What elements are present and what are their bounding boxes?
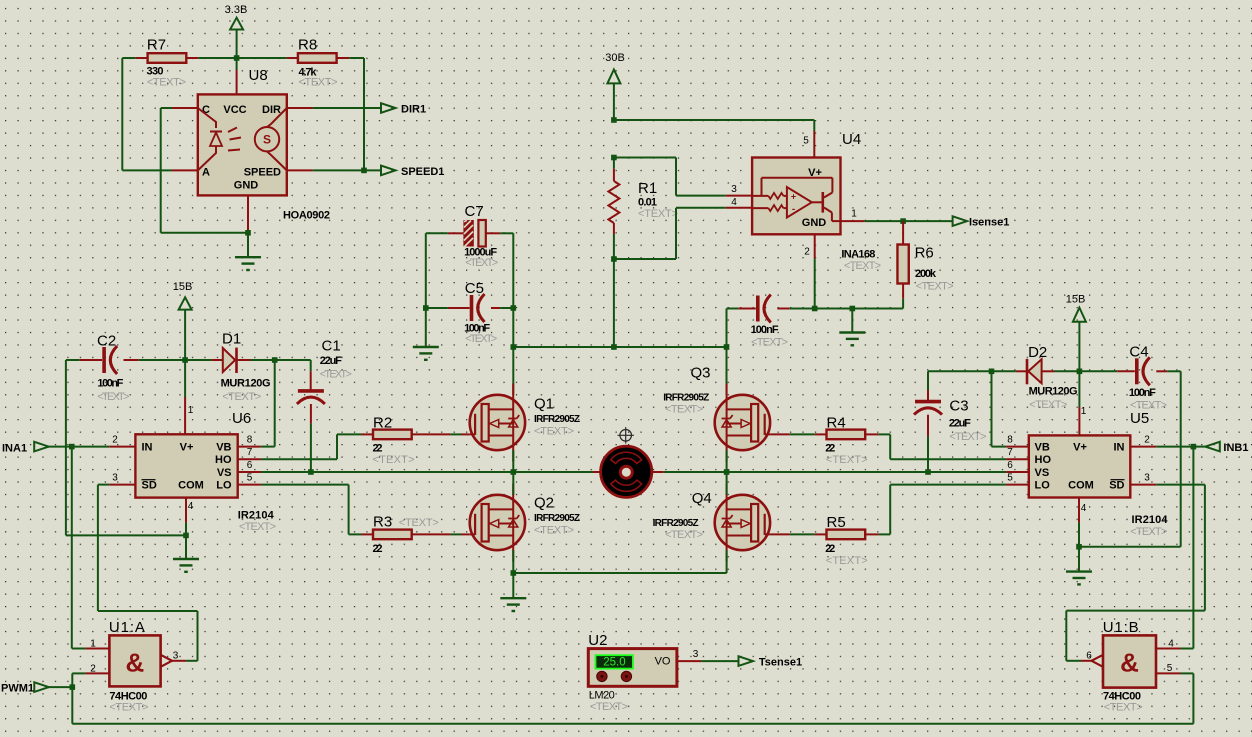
wire R7-left to opto A <box>122 58 172 170</box>
transistor Q2 <box>470 484 580 562</box>
svg-text:<TEXT>: <TEXT> <box>534 426 574 438</box>
node Isense junction <box>900 218 906 224</box>
svg-text:MUR120G: MUR120G <box>221 378 271 390</box>
wire VS right row <box>727 471 1007 473</box>
svg-text:<TEXT>: <TEXT> <box>222 391 261 403</box>
U5 pin names <box>1035 442 1125 492</box>
node VB-right junction <box>989 369 995 375</box>
svg-text:<TEXT>: <TEXT> <box>1104 702 1143 714</box>
wire SPEED1 <box>313 169 381 171</box>
wire VB-right <box>992 371 1007 446</box>
svg-text:<TEXT>: <TEXT> <box>1029 399 1067 411</box>
svg-text:COM: COM <box>178 480 204 492</box>
U1:B pin numbers <box>1086 639 1174 675</box>
ground under U4 <box>839 333 865 346</box>
U8 pin GND stub <box>247 195 249 232</box>
wire INB1 down to U1:B pin4 <box>1181 447 1194 649</box>
node U4-gnd junction <box>850 306 856 312</box>
motor origin marker <box>618 427 634 443</box>
svg-text:<TEXT>: <TEXT> <box>320 369 352 381</box>
wire 15B to C4 <box>1079 370 1117 372</box>
svg-text:COM: COM <box>1068 480 1094 492</box>
U2 pin3 wire <box>677 649 739 661</box>
terminal Tsense1 <box>739 656 803 668</box>
U8 LED rays <box>228 128 241 151</box>
power rail 15B left arrow <box>173 281 193 360</box>
svg-text:<TEXT>: <TEXT> <box>465 333 497 345</box>
terminal Isense1 <box>953 216 1010 228</box>
svg-text:1: 1 <box>1081 406 1087 417</box>
svg-text:<TEXT>: <TEXT> <box>665 529 703 541</box>
U8 speed sensor S <box>255 108 287 170</box>
svg-text:<TEXT>: <TEXT> <box>665 404 703 416</box>
wire 15B to U5 V+ <box>1078 371 1080 435</box>
op-amp U4 body <box>752 131 881 272</box>
svg-text:U8: U8 <box>249 67 268 84</box>
svg-text:<TEXT>: <TEXT> <box>590 701 628 713</box>
node R1 bottom junction <box>611 256 617 262</box>
wire PWM1 to pin2 <box>72 673 85 687</box>
node SPEED junction <box>361 168 367 174</box>
svg-text:DIR: DIR <box>262 104 281 116</box>
svg-text:<TEXT>: <TEXT> <box>147 77 186 89</box>
svg-text:6: 6 <box>247 460 253 471</box>
wire C4 return to COM <box>1079 371 1181 547</box>
power rail 3.3B arrow <box>225 4 248 58</box>
svg-text:IRFR2905Z: IRFR2905Z <box>653 518 699 529</box>
svg-text:LM20: LM20 <box>589 690 615 702</box>
wire R3 to Q2 gate <box>450 533 469 535</box>
svg-text:4: 4 <box>188 501 194 512</box>
svg-text:22: 22 <box>825 543 835 555</box>
wire PWM1 bottom bus <box>72 673 1193 723</box>
wire VCC stem <box>236 58 238 94</box>
svg-text:+: + <box>791 192 796 202</box>
svg-text:7: 7 <box>247 447 253 458</box>
ground under U5 <box>1066 572 1092 585</box>
capacitor C4 <box>1117 344 1167 412</box>
svg-text:<TEXT>: <TEXT> <box>949 431 986 443</box>
U1:B pin stubs <box>1156 649 1181 674</box>
svg-text:0.01: 0.01 <box>638 197 657 209</box>
svg-text:IRFR2905Z: IRFR2905Z <box>663 393 709 404</box>
node bottom-gnd junction <box>511 570 517 576</box>
wire opto C to gnd <box>161 108 248 233</box>
wire R4 to Q3 gate <box>770 433 815 435</box>
capacitor C1 <box>297 338 352 473</box>
U6 pin numbers <box>112 405 253 512</box>
svg-text:<TEXT>: <TEXT> <box>373 454 415 466</box>
svg-text:100nF: 100nF <box>751 324 779 336</box>
svg-text:<TEXT>: <TEXT> <box>239 521 276 533</box>
U8 pin SPEED stub <box>287 169 313 171</box>
svg-text:3.3B: 3.3B <box>225 4 248 16</box>
U8 pin A stub <box>172 169 198 171</box>
svg-text:1: 1 <box>188 405 194 416</box>
wire PWM1 <box>47 686 73 688</box>
node motor-left junction <box>511 469 517 475</box>
svg-text:<TEXT>: <TEXT> <box>97 391 129 403</box>
U1:B output wedge <box>1081 655 1103 667</box>
nand gate U1:B body <box>1103 619 1156 714</box>
wire R7 to R8 <box>198 57 286 59</box>
svg-text:7: 7 <box>1007 447 1013 458</box>
svg-text:<TEXT>: <TEXT> <box>465 257 498 269</box>
U2 display <box>596 655 633 668</box>
svg-text:C5: C5 <box>465 280 484 297</box>
terminal INA1 <box>2 442 49 455</box>
wire bottom rail <box>513 550 726 573</box>
svg-text:100nF: 100nF <box>1129 387 1156 399</box>
svg-text:<TEXT>: <TEXT> <box>534 525 574 537</box>
svg-text:<TEXT>: <TEXT> <box>916 281 954 293</box>
U6 pin names <box>142 442 232 492</box>
wire SD-left path <box>98 485 198 661</box>
svg-text:5: 5 <box>1007 473 1013 484</box>
ground under C5 <box>413 347 439 360</box>
U4 pin2 wire <box>804 234 814 309</box>
wire gnd stem <box>512 573 514 598</box>
svg-text:22: 22 <box>373 543 383 555</box>
ic U6 body <box>135 410 276 533</box>
node 15B-right junction <box>1077 369 1083 375</box>
U6 pin stubs <box>109 447 261 523</box>
svg-text:U1:A: U1:A <box>109 619 145 636</box>
svg-text:U4: U4 <box>842 131 861 148</box>
svg-text:VS: VS <box>1035 467 1050 479</box>
resistor R8 <box>287 37 350 89</box>
node motor-right junction <box>724 469 730 475</box>
node VB-left junction <box>272 357 278 363</box>
node opto gnd junction <box>245 230 251 236</box>
svg-text:R3: R3 <box>373 514 392 531</box>
svg-text:DIR1: DIR1 <box>401 104 426 116</box>
diode D1 <box>212 331 271 404</box>
svg-text:LO: LO <box>1035 480 1051 492</box>
wire C2 to D1 <box>139 359 212 361</box>
svg-text:2: 2 <box>112 435 118 446</box>
svg-text:IN: IN <box>1114 442 1125 454</box>
wire R5 to Q4 gate <box>770 533 815 535</box>
svg-text:1: 1 <box>851 209 857 220</box>
svg-text:2: 2 <box>804 247 810 258</box>
wire R6 bottom row <box>815 308 903 310</box>
capacitor C2 <box>66 333 139 404</box>
svg-text:200k: 200k <box>915 268 937 280</box>
wire D2 to 15B <box>1055 370 1080 372</box>
wire D1 to C1 <box>251 359 311 361</box>
motor left lead <box>593 471 601 473</box>
svg-text:Q4: Q4 <box>692 490 712 507</box>
terminal PWM1 <box>1 682 49 694</box>
svg-text:U1:B: U1:B <box>1103 619 1139 636</box>
wire C7-right down to Q1 <box>512 233 514 394</box>
svg-text:GND: GND <box>234 180 259 192</box>
svg-text:SPEED1: SPEED1 <box>401 166 444 178</box>
svg-text:C7: C7 <box>465 203 484 220</box>
svg-text:D1: D1 <box>222 331 241 348</box>
node R1 top junction <box>611 117 617 123</box>
svg-text:<TEXT>: <TEXT> <box>638 208 678 220</box>
U4 pin1 wire <box>841 209 953 222</box>
node INB1 junction <box>1191 444 1197 450</box>
diode D2 <box>1016 344 1078 411</box>
motor right lead <box>652 471 727 473</box>
svg-text:3: 3 <box>1144 473 1150 484</box>
wire VB-left <box>261 360 275 447</box>
node bus-Q3 junction <box>724 344 730 350</box>
svg-text:R7: R7 <box>147 37 166 54</box>
U5 pin numbers <box>1007 406 1150 514</box>
svg-text:VO: VO <box>655 656 671 668</box>
U8 pin C stub <box>172 107 198 109</box>
svg-text:INA168: INA168 <box>841 249 875 261</box>
svg-text:15B: 15B <box>1066 294 1086 306</box>
svg-text:VB: VB <box>1035 442 1050 454</box>
wire INA1 down to U1:A pin1 <box>72 447 86 649</box>
svg-text:D2: D2 <box>1028 344 1047 361</box>
svg-text:22uF: 22uF <box>320 355 342 367</box>
svg-text:&: & <box>1120 648 1139 678</box>
wire U6 COM to gnd <box>185 523 187 559</box>
terminal DIR1 <box>381 103 426 115</box>
svg-text:C2: C2 <box>97 333 116 350</box>
svg-text:SD: SD <box>142 480 157 492</box>
svg-text:MUR120G: MUR120G <box>1029 386 1078 398</box>
capacitor C5 <box>426 280 514 345</box>
sensor U2 body <box>588 632 677 713</box>
node U5 COM junction <box>1076 544 1082 550</box>
svg-text:6: 6 <box>1007 460 1013 471</box>
resistor R2 <box>362 415 451 467</box>
svg-text:<TEXT>: <TEXT> <box>109 702 148 714</box>
node 15B junction <box>182 357 188 363</box>
svg-text:R8: R8 <box>298 37 317 54</box>
U8 pin labels <box>202 104 281 192</box>
wire INA1 to IN <box>47 446 109 448</box>
wire U4 gnd stem <box>851 309 853 333</box>
svg-text:5: 5 <box>1167 663 1173 674</box>
wire LO left <box>261 485 362 535</box>
svg-text:4: 4 <box>1081 503 1087 514</box>
svg-text:<TEXT>: <TEXT> <box>1130 526 1167 538</box>
svg-text:<TEXT>: <TEXT> <box>844 260 881 272</box>
node C5 right junction <box>511 305 517 311</box>
svg-text:<TEXT>: <TEXT> <box>826 555 868 567</box>
node C5 left junction <box>423 305 429 311</box>
svg-text:HO: HO <box>1035 454 1052 466</box>
wire HO left <box>261 434 362 459</box>
svg-text:3: 3 <box>112 473 118 484</box>
transistor Q3 <box>663 365 770 462</box>
resistor R1 <box>608 158 678 260</box>
svg-text:<TEXT>: <TEXT> <box>399 517 439 529</box>
wire LO right <box>879 485 1007 535</box>
wire to U4 pin5 <box>614 120 814 158</box>
resistor R4 <box>815 415 879 467</box>
transistor Q1 <box>470 384 580 462</box>
wire 100nF corner to bus <box>726 309 728 348</box>
node INA1 junction <box>69 444 75 450</box>
ic U5 body <box>1029 410 1169 538</box>
svg-text:C1: C1 <box>322 338 341 355</box>
svg-text:IRFR2905Z: IRFR2905Z <box>534 414 580 425</box>
svg-text:100nF: 100nF <box>97 378 123 390</box>
svg-text:25.0: 25.0 <box>603 657 625 669</box>
svg-text:C3: C3 <box>949 398 968 415</box>
svg-text:3: 3 <box>731 184 737 195</box>
wire C7-left down <box>425 233 427 347</box>
svg-text:R6: R6 <box>915 245 934 262</box>
resistor R7 <box>136 37 199 89</box>
wire R8 to SPEED1 net <box>349 58 364 170</box>
ground under Q2 <box>500 598 526 611</box>
node PWM1 junction <box>70 684 76 690</box>
svg-text:Tsense1: Tsense1 <box>759 657 802 669</box>
wire bus to Q3 <box>726 347 728 395</box>
svg-text:V+: V+ <box>808 167 822 179</box>
svg-text:Isense1: Isense1 <box>969 217 1009 229</box>
wire to U4 pin3 <box>614 158 752 196</box>
label HOA0902 <box>283 210 330 222</box>
motor <box>601 446 652 497</box>
resistor R3 <box>362 514 451 556</box>
svg-text:22uF: 22uF <box>949 418 971 430</box>
wire 15B to U6 V+ <box>184 360 186 434</box>
svg-text:VB: VB <box>216 442 231 454</box>
svg-text:VS: VS <box>217 467 232 479</box>
node C1-VS junction <box>308 469 314 475</box>
svg-text:<TEXT>: <TEXT> <box>299 77 338 89</box>
resistor R5 <box>815 514 879 567</box>
svg-text:HO: HO <box>215 454 232 466</box>
wire DIR1 <box>313 107 381 109</box>
U8 pin DIR stub <box>287 107 313 109</box>
svg-text:IRFR2905Z: IRFR2905Z <box>534 513 580 524</box>
svg-text:U2: U2 <box>588 632 607 649</box>
svg-text:R2: R2 <box>373 415 392 432</box>
svg-text:<TEXT>: <TEXT> <box>751 337 788 349</box>
svg-text:VCC: VCC <box>223 104 246 116</box>
svg-text:R5: R5 <box>827 514 846 531</box>
wire SD-right path <box>1066 485 1205 661</box>
svg-text:SPEED: SPEED <box>244 167 281 179</box>
wire to U4 pin4 <box>614 197 752 259</box>
capacitor C7 <box>426 203 514 269</box>
wire R1 to bus <box>613 259 615 347</box>
svg-text:SD: SD <box>1109 480 1124 492</box>
svg-text:-: - <box>792 204 795 215</box>
node C3-VS junction <box>925 469 931 475</box>
svg-text:5: 5 <box>803 136 809 147</box>
svg-text:GND: GND <box>802 217 827 229</box>
wire Q3-Q4 node <box>726 450 728 495</box>
terminal INB1 <box>1205 442 1248 454</box>
wire U5 COM to gnd <box>1078 523 1080 572</box>
svg-text:Q3: Q3 <box>691 365 711 382</box>
svg-text:R1: R1 <box>638 180 657 197</box>
nand gate U1:A body <box>109 619 161 714</box>
optocoupler U8 body <box>198 67 287 195</box>
capacitor 100nF at U4 <box>727 295 815 349</box>
svg-text:A: A <box>202 167 210 179</box>
svg-text:3: 3 <box>693 649 699 660</box>
svg-text:V+: V+ <box>1073 442 1087 454</box>
U1:A pin stubs <box>85 649 109 674</box>
wire C3 to D2 <box>928 370 1016 372</box>
node U6 COM junction <box>183 533 189 539</box>
svg-text:IN: IN <box>142 442 153 454</box>
U2 VO label <box>655 656 671 668</box>
wire HO right <box>879 434 1007 459</box>
svg-text:Q1: Q1 <box>534 396 554 413</box>
svg-text:22: 22 <box>825 443 835 455</box>
power rail 15B right arrow <box>1066 294 1086 372</box>
svg-text:INB1: INB1 <box>1223 442 1248 454</box>
svg-text:IR2104: IR2104 <box>1132 514 1169 526</box>
svg-text:4: 4 <box>731 197 737 208</box>
wire C2 left to COM <box>66 360 186 535</box>
svg-text:LO: LO <box>216 480 232 492</box>
svg-text:INA1: INA1 <box>2 443 27 455</box>
wire to opto ground <box>247 233 249 257</box>
svg-text:5: 5 <box>247 473 253 484</box>
terminal SPEED1 <box>381 166 444 178</box>
node bus-R1 junction <box>611 344 617 350</box>
U2 buttons <box>597 671 632 681</box>
resistor R6 <box>897 221 953 308</box>
svg-text:U6: U6 <box>232 410 251 427</box>
svg-text:2: 2 <box>1144 435 1150 446</box>
power rail 30B arrow <box>605 52 625 120</box>
wire VS left row <box>261 471 602 473</box>
svg-text:U5: U5 <box>1130 410 1149 427</box>
svg-text:IR2104: IR2104 <box>238 510 275 522</box>
node VCC junction <box>234 55 240 61</box>
svg-text:8: 8 <box>1007 435 1013 446</box>
svg-text:Q2: Q2 <box>534 495 554 512</box>
svg-text:PWM1: PWM1 <box>1 683 34 695</box>
svg-text:&: & <box>126 648 145 678</box>
node pin2 junction <box>812 306 818 312</box>
U8 LED <box>198 108 222 170</box>
node R1 sense-top junction <box>611 155 617 161</box>
ground under U6 <box>173 559 199 572</box>
ground under U8 <box>235 257 261 270</box>
svg-text:15B: 15B <box>173 281 193 293</box>
svg-text:22: 22 <box>373 443 383 455</box>
U1:A output wedge <box>161 655 187 667</box>
wire IN right <box>1156 446 1205 448</box>
svg-text:V+: V+ <box>180 442 194 454</box>
svg-text:HOA0902: HOA0902 <box>283 210 330 222</box>
svg-text:<TEXT>: <TEXT> <box>826 454 868 466</box>
svg-text:R4: R4 <box>827 415 846 432</box>
node bus-Q1 junction <box>511 344 517 350</box>
U1:A pin numbers <box>90 639 179 675</box>
wire Q1-Q2 node <box>512 450 514 495</box>
capacitor C3 <box>914 371 986 472</box>
svg-text:8: 8 <box>247 435 253 446</box>
transistor Q4 <box>653 484 771 562</box>
svg-text:30B: 30B <box>605 52 625 64</box>
U5 pin stubs <box>1006 447 1156 523</box>
svg-text:C4: C4 <box>1129 344 1148 361</box>
wire top bus <box>513 346 726 348</box>
svg-text:S: S <box>263 133 271 147</box>
U4 internals <box>752 167 840 229</box>
wire R2 to Q1 gate <box>450 433 469 435</box>
